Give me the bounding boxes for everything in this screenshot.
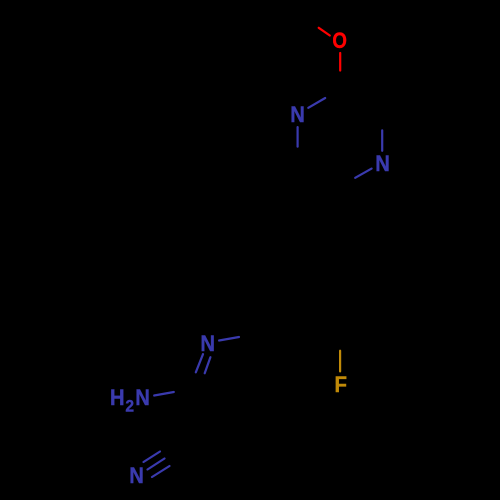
svg-text:N: N	[375, 152, 390, 176]
amino group H2N label	[110, 386, 150, 416]
nitrile triple bond line 2 middle (N-colored half)	[148, 459, 165, 470]
nitrile triple bond line 3 (N-colored half)	[152, 466, 170, 477]
bond N1-C6 pyridine (N-colored half)	[219, 337, 239, 341]
bond N1=C2 pyridine inner line (N-colored half)	[205, 357, 211, 373]
svg-text:N: N	[135, 386, 150, 410]
svg-text:H: H	[110, 386, 125, 410]
nitrile triple bond line 1 (N-colored half)	[144, 452, 161, 463]
bond N4-C5 pyrazine (N-colored half)	[355, 169, 371, 178]
bond C3-N4 pyrazine (N-colored half)	[381, 130, 383, 150]
svg-text:F: F	[334, 372, 347, 397]
bond O-C2 pyrazine (O-colored half)	[339, 53, 341, 71]
svg-text:N: N	[200, 332, 215, 356]
svg-text:N: N	[290, 103, 305, 127]
bond N1-C6 pyrazine (N-colored half)	[297, 127, 299, 147]
bond N1-C2 pyrazine (N-colored half)	[308, 98, 325, 108]
bond N1=C2 pyridine main line (N-colored half)	[196, 354, 203, 372]
svg-text:N: N	[129, 464, 144, 488]
svg-text:2: 2	[125, 397, 134, 416]
bond NH2-C2 pyridine (N-colored half)	[154, 392, 174, 396]
bond C-F (F-colored half)	[339, 351, 341, 372]
bond CH3-O (O-colored half)	[319, 28, 330, 36]
svg-text:O: O	[332, 30, 347, 54]
